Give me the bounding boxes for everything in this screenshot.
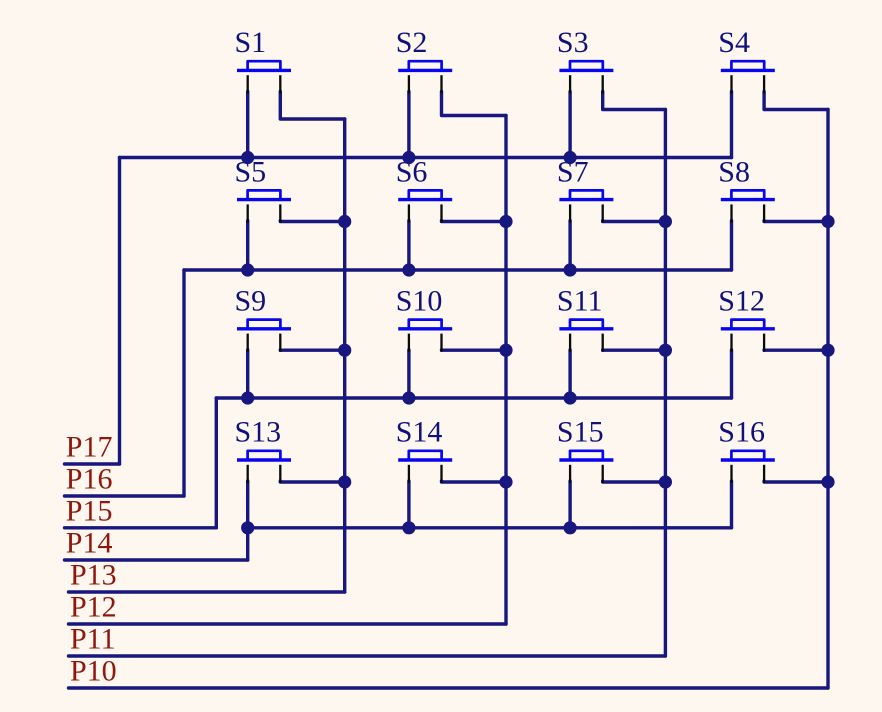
pushbutton switch S2	[398, 61, 452, 70]
pin 2 of S6 (right)	[440, 204, 442, 222]
junction: S10 pin2 on column 2	[499, 344, 512, 357]
svg-text:S2: S2	[396, 26, 428, 59]
pushbutton switch S9	[237, 320, 291, 329]
svg-text:S9: S9	[235, 285, 267, 318]
svg-text:S13: S13	[235, 416, 282, 449]
svg-text:P17: P17	[66, 431, 113, 464]
wire: S6 pin1 to row bus 2	[407, 221, 410, 270]
svg-text:P16: P16	[66, 463, 113, 496]
wire: net P11	[69, 654, 666, 657]
junction: S15 pin2 on column 3	[659, 475, 672, 488]
pin 2 of S8 (right)	[763, 204, 765, 222]
svg-text:S14: S14	[396, 416, 443, 449]
pin 2 of S15 (right)	[602, 465, 604, 483]
wire: S6 pin2 to column 2	[442, 219, 507, 223]
junction: S13 pin2 on column 1	[338, 475, 351, 488]
wire: row bus 1	[120, 156, 732, 159]
junction: S12 pin2 on column 4	[821, 344, 834, 357]
pin 2 of S13 (right)	[279, 465, 281, 483]
pin 1 of S9 (left)	[247, 334, 249, 352]
wire: row bus 3 riser to P15	[215, 398, 218, 528]
wire: S11 pin2 to column 3	[603, 348, 666, 352]
junction: S14 pin2 on column 2	[499, 475, 512, 488]
junction: S1 pin1 on row bus 1	[241, 151, 254, 164]
wire: row bus 3	[216, 396, 731, 399]
junction: S13 pin1 on row bus 4	[241, 521, 254, 534]
pin 2 of S1 (right)	[279, 75, 281, 93]
wire: P14 riser to row bus 4	[246, 528, 249, 560]
wire: S13 pin2 to column 1	[280, 481, 344, 482]
wire: S9 pin2 to column 1	[280, 348, 344, 352]
junction: S5 pin1 on row bus 2	[241, 263, 254, 276]
junction: S15 pin1 on row bus 4	[564, 521, 577, 534]
junction: S6 pin1 on row bus 2	[402, 263, 415, 276]
pushbutton switch S3	[559, 61, 613, 70]
svg-text:S16: S16	[718, 416, 765, 449]
svg-text:S10: S10	[396, 285, 443, 318]
wire: row bus 4	[248, 526, 732, 529]
pushbutton switch S11	[559, 320, 613, 329]
pin 1 of S12 (left)	[730, 334, 732, 352]
pin 2 of S16 (right)	[763, 465, 765, 483]
wire: S1 pin2 to column 1	[280, 91, 344, 119]
wire: net P14	[65, 558, 248, 561]
junction: S7 pin2 on column 3	[659, 215, 672, 228]
wire: column 2 vertical	[504, 116, 507, 625]
svg-text:P14: P14	[66, 527, 113, 560]
pushbutton switch S13	[237, 451, 291, 460]
junction: S3 pin1 on row bus 1	[564, 151, 577, 164]
svg-text:P11: P11	[70, 623, 116, 656]
pin 1 of S10 (left)	[408, 334, 410, 352]
pin 2 of S3 (right)	[602, 75, 604, 93]
wire: S5 pin1 to row bus 2	[246, 221, 249, 270]
wire: S8 pin1 to row bus 2	[730, 221, 733, 270]
wire: net P10	[69, 686, 829, 689]
pin 2 of S11 (right)	[602, 334, 604, 352]
wire: S15 pin1 to row bus 4	[568, 481, 571, 528]
svg-text:S15: S15	[557, 416, 604, 449]
junction: S2 pin1 on row bus 1	[402, 151, 415, 164]
pin 1 of S11 (left)	[569, 334, 571, 352]
pin 1 of S8 (left)	[730, 204, 732, 222]
wire: S12 pin2 to column 4	[764, 348, 828, 352]
wire: S3 pin2 to column 3	[603, 91, 666, 109]
wire: net P16	[65, 494, 185, 497]
pin 1 of S14 (left)	[408, 465, 410, 483]
svg-text:P15: P15	[66, 495, 113, 528]
wire: S16 pin2 to column 4	[764, 481, 828, 482]
junction: S8 pin2 on column 4	[821, 215, 834, 228]
junction: S7 pin1 on row bus 2	[564, 263, 577, 276]
pin 1 of S5 (left)	[247, 204, 249, 222]
junction: S16 pin2 on column 4	[821, 475, 834, 488]
wire: row bus 1 riser to P17	[118, 158, 121, 465]
pin 2 of S7 (right)	[602, 204, 604, 222]
pushbutton switch S10	[398, 320, 452, 329]
wire: row bus 2	[184, 268, 732, 271]
pin 1 of S16 (left)	[730, 465, 732, 483]
wire: net P13	[69, 590, 345, 593]
wire: S7 pin2 to column 3	[603, 219, 666, 223]
svg-text:S4: S4	[718, 26, 750, 59]
wire: S7 pin1 to row bus 2	[568, 221, 571, 270]
wire: S15 pin2 to column 3	[603, 481, 666, 482]
pin 1 of S7 (left)	[569, 204, 571, 222]
wire: S2 pin2 to column 2	[442, 91, 507, 115]
junction: S9 pin1 on row bus 3	[241, 391, 254, 404]
wire: row bus 2 riser to P16	[182, 270, 185, 496]
wire: S9 pin1 to row bus 3	[246, 350, 249, 398]
wire: S11 pin1 to row bus 3	[568, 350, 571, 398]
svg-text:S1: S1	[235, 26, 267, 59]
wire: S8 pin2 to column 4	[764, 219, 828, 223]
pin 1 of S15 (left)	[569, 465, 571, 483]
junction: S14 pin1 on row bus 4	[402, 521, 415, 534]
wire: net P15	[65, 526, 217, 529]
svg-text:P12: P12	[70, 591, 117, 624]
pin 2 of S9 (right)	[279, 334, 281, 352]
pin 1 of S6 (left)	[408, 204, 410, 222]
pin 1 of S2 (left)	[408, 75, 410, 93]
pushbutton switch S8	[721, 190, 775, 199]
pushbutton switch S14	[398, 451, 452, 460]
wire: column 3 vertical	[664, 110, 667, 657]
pushbutton switch S4	[721, 61, 775, 70]
pin 2 of S12 (right)	[763, 334, 765, 352]
svg-text:S11: S11	[557, 285, 603, 318]
pushbutton switch S5	[237, 190, 291, 199]
junction: S11 pin2 on column 3	[659, 344, 672, 357]
wire: net P12	[69, 622, 507, 625]
pushbutton switch S6	[398, 190, 452, 199]
pushbutton switch S7	[559, 190, 613, 199]
pushbutton switch S16	[721, 451, 775, 460]
junction: S9 pin2 on column 1	[338, 344, 351, 357]
pushbutton switch S15	[559, 451, 613, 460]
wire: S14 pin1 to row bus 4	[407, 481, 410, 528]
pin 2 of S10 (right)	[440, 334, 442, 352]
pin 2 of S4 (right)	[763, 75, 765, 93]
pushbutton switch S12	[721, 320, 775, 329]
svg-text:P13: P13	[70, 559, 117, 592]
junction: S11 pin1 on row bus 3	[564, 391, 577, 404]
pushbutton switch S1	[237, 61, 291, 70]
svg-text:S8: S8	[718, 155, 750, 188]
pin 2 of S5 (right)	[279, 204, 281, 222]
wire: S2 pin1 to row bus 1	[407, 91, 410, 157]
junction: S6 pin2 on column 2	[499, 215, 512, 228]
pin 1 of S4 (left)	[730, 75, 732, 93]
pin 2 of S14 (right)	[440, 465, 442, 483]
pin 1 of S13 (left)	[247, 465, 249, 483]
wire: net P17	[65, 462, 120, 465]
wire: S10 pin2 to column 2	[442, 348, 507, 352]
wire: S14 pin2 to column 2	[442, 481, 507, 482]
pin 2 of S2 (right)	[440, 75, 442, 93]
pin 1 of S1 (left)	[247, 75, 249, 93]
wire: S10 pin1 to row bus 3	[407, 350, 410, 398]
svg-text:P10: P10	[70, 655, 117, 688]
wire: S4 pin1 to row bus 1	[730, 91, 733, 157]
wire: column 4 vertical	[826, 110, 829, 689]
pin 1 of S3 (left)	[569, 75, 571, 93]
wire: S12 pin1 to row bus 3	[730, 350, 733, 398]
junction: S10 pin1 on row bus 3	[402, 391, 415, 404]
svg-text:S12: S12	[718, 285, 765, 318]
svg-text:S3: S3	[557, 26, 589, 59]
wire: S16 pin1 to row bus 4	[730, 481, 733, 528]
wire: S3 pin1 to row bus 1	[568, 91, 571, 157]
wire: S4 pin2 to column 4	[764, 91, 828, 109]
wire: S1 pin1 to row bus 1	[246, 91, 249, 157]
wire: S13 pin1 to row bus 4	[246, 481, 249, 528]
junction: S5 pin2 on column 1	[338, 215, 351, 228]
wire: S5 pin2 to column 1	[280, 219, 344, 223]
wire: column 1 vertical	[343, 119, 346, 592]
